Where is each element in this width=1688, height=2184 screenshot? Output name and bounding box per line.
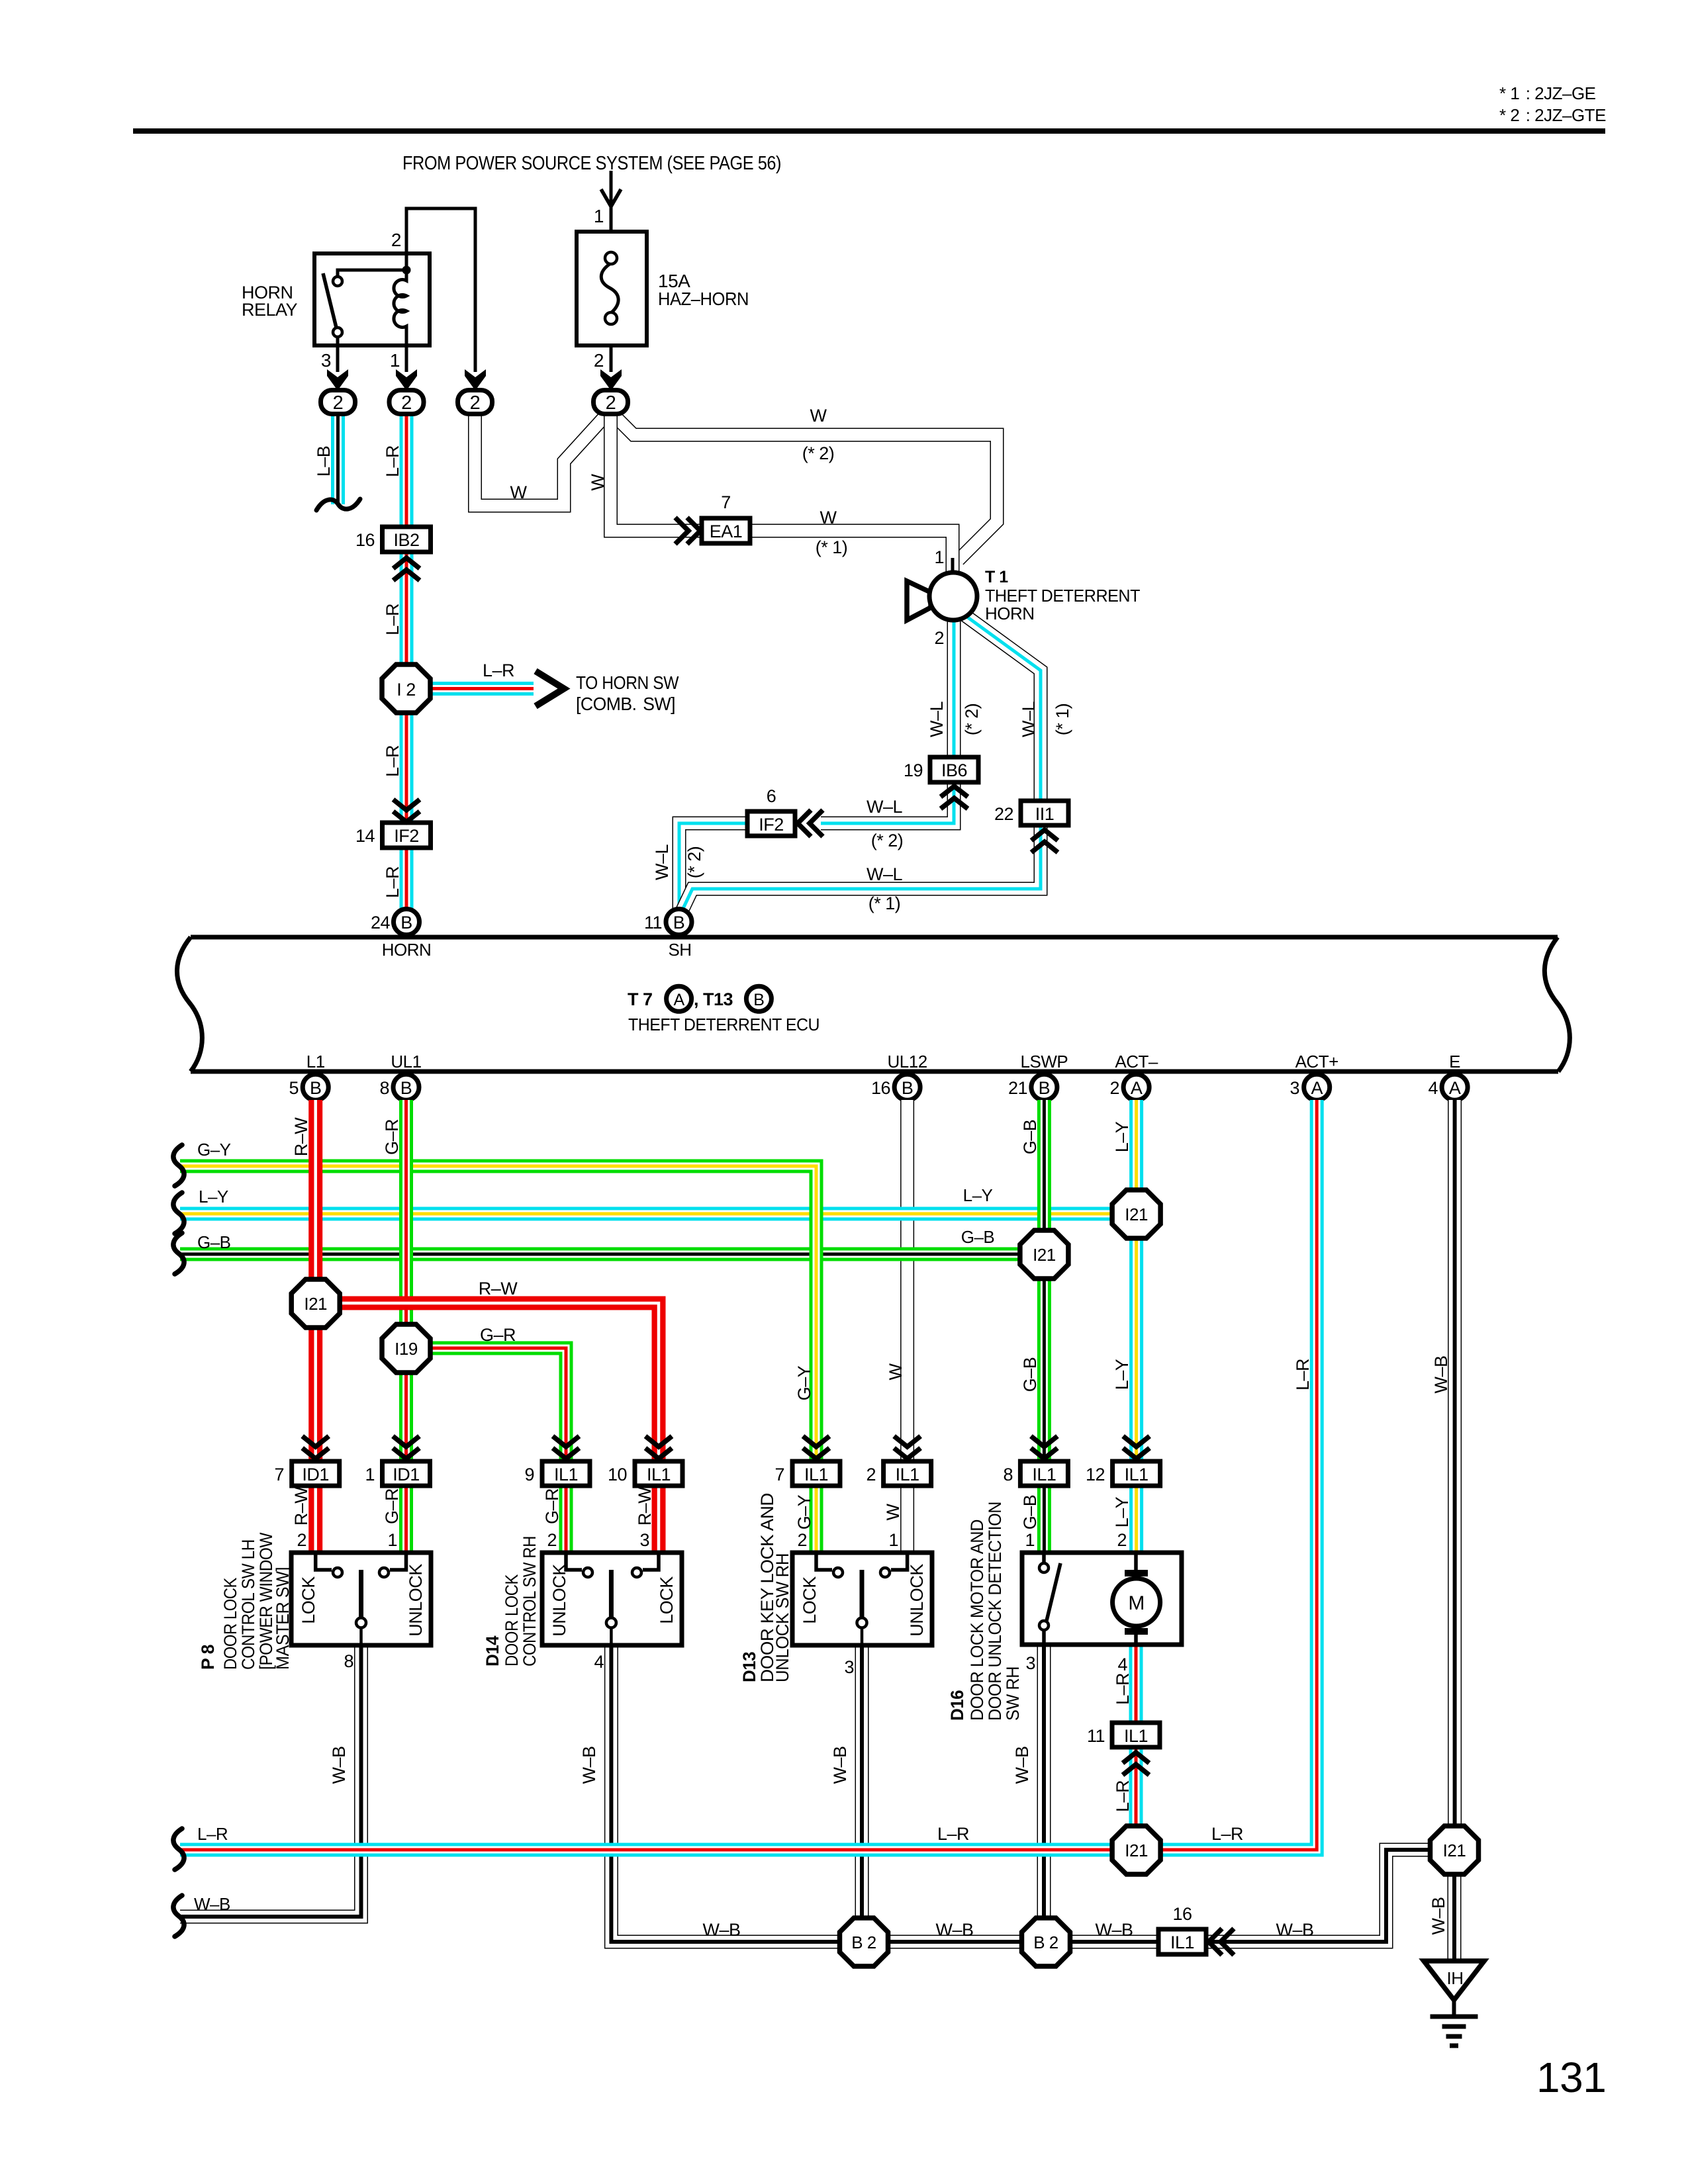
svg-text:W: W bbox=[810, 406, 827, 426]
svg-text:B 2: B 2 bbox=[1033, 1933, 1058, 1952]
svg-text:L–R: L–R bbox=[1211, 1824, 1243, 1844]
chevron right into EA1 bbox=[675, 518, 700, 544]
svg-text:MASTER SW]: MASTER SW] bbox=[273, 1567, 293, 1670]
D16 pin 4 label bbox=[1117, 1655, 1127, 1674]
svg-text:L–R: L–R bbox=[383, 866, 402, 898]
svg-text:EA1: EA1 bbox=[710, 522, 743, 541]
chevron down above IF2 bbox=[393, 799, 420, 822]
svg-text:ACT+: ACT+ bbox=[1295, 1052, 1338, 1071]
chevron down above IL1 pin 2 bbox=[894, 1436, 921, 1459]
svg-text:1: 1 bbox=[365, 1465, 375, 1484]
ECU title T7 A, T13 B bbox=[628, 986, 820, 1034]
brace G-Y bus bbox=[173, 1145, 184, 1186]
svg-text:DOOR LOCK: DOOR LOCK bbox=[502, 1574, 522, 1666]
svg-text:1: 1 bbox=[888, 1530, 898, 1550]
svg-text:2: 2 bbox=[797, 1530, 807, 1550]
svg-text:(* 1): (* 1) bbox=[1053, 704, 1072, 736]
svg-text:3: 3 bbox=[1025, 1653, 1035, 1673]
svg-text:I21: I21 bbox=[1033, 1245, 1056, 1265]
svg-text:21: 21 bbox=[1008, 1078, 1027, 1098]
svg-text:DOOR UNLOCK DETECTION: DOOR UNLOCK DETECTION bbox=[985, 1502, 1005, 1721]
junction octagon B2 (right) bbox=[1022, 1918, 1070, 1966]
svg-text:3: 3 bbox=[639, 1530, 649, 1550]
svg-text:IL1: IL1 bbox=[554, 1465, 578, 1484]
wire W-L (*2) from horn pin 2 down to IB6 bbox=[927, 620, 982, 758]
svg-text:IF2: IF2 bbox=[394, 826, 419, 846]
svg-text:W–L: W–L bbox=[867, 864, 903, 884]
chevron left into IF2 pin 6 bbox=[798, 810, 823, 837]
svg-text:T 1: T 1 bbox=[985, 568, 1008, 586]
wire L-B from connector, broken end bbox=[314, 414, 338, 504]
P8 pin 8 label bbox=[344, 1651, 353, 1671]
svg-text:L–R: L–R bbox=[937, 1824, 969, 1844]
fuse 15A HAZ-HORN bbox=[577, 232, 749, 345]
D16 pin 3 label bbox=[1025, 1653, 1035, 1673]
wire L-R branch to horn switch bbox=[406, 660, 534, 689]
svg-text:R–W: R–W bbox=[291, 1486, 311, 1526]
wire W-B from B2 to IL1 pin 16 bbox=[1068, 1920, 1160, 1942]
D14 label block bbox=[483, 1536, 539, 1666]
svg-text:LSWP: LSWP bbox=[1021, 1052, 1068, 1071]
arrow into connector 2 (feed) bbox=[465, 369, 486, 390]
ECU pin 5 B bbox=[289, 1074, 328, 1100]
wire W-B from D14 pin 4 to B2 bbox=[579, 1646, 841, 1942]
svg-text:B: B bbox=[1039, 1078, 1051, 1098]
wire W-B from P8 pin 8 to left brace bbox=[180, 1646, 361, 1917]
svg-text:FROM POWER SOURCE SYSTEM (SEE: FROM POWER SOURCE SYSTEM (SEE PAGE 56) bbox=[402, 153, 781, 174]
junction box 22 II1 bbox=[994, 801, 1068, 825]
wire W-B between B2 junctions bbox=[886, 1920, 1023, 1942]
svg-text:IL1: IL1 bbox=[647, 1465, 671, 1484]
svg-text:HORN: HORN bbox=[985, 604, 1035, 623]
ECU pin 4 A bbox=[1428, 1074, 1468, 1100]
svg-text:1: 1 bbox=[1025, 1530, 1035, 1550]
svg-text:G–B: G–B bbox=[1020, 1120, 1040, 1155]
junction box 19 IB6 bbox=[904, 757, 978, 782]
svg-text:RELAY: RELAY bbox=[242, 300, 298, 320]
chevron down above IL1 pin 10 bbox=[645, 1436, 672, 1459]
svg-text:10: 10 bbox=[608, 1465, 627, 1484]
svg-text:2: 2 bbox=[1117, 1530, 1127, 1550]
svg-text:4: 4 bbox=[1428, 1078, 1438, 1098]
svg-text:L–R: L–R bbox=[383, 445, 402, 477]
title FROM POWER SOURCE SYSTEM bbox=[402, 153, 781, 174]
relay switch contact bbox=[323, 270, 406, 337]
svg-text:HAZ–HORN: HAZ–HORN bbox=[658, 289, 749, 309]
arrow into connector 2 (relay pin1) bbox=[396, 369, 417, 390]
svg-text:W–L: W–L bbox=[867, 797, 903, 817]
svg-text:UNLOCK: UNLOCK bbox=[907, 1564, 927, 1637]
connector octagon I21 (W-B / ground) bbox=[1430, 1826, 1479, 1874]
svg-text:1: 1 bbox=[594, 206, 604, 226]
wire: relay pin 1 bbox=[390, 345, 406, 372]
svg-text:* 1 : 2JZ–GE: * 1 : 2JZ–GE bbox=[1499, 83, 1596, 103]
svg-text:3: 3 bbox=[1289, 1078, 1299, 1098]
junction box 11 IL1 bbox=[1087, 1723, 1160, 1747]
svg-text:LOCK: LOCK bbox=[657, 1576, 677, 1624]
svg-text:(* 1): (* 1) bbox=[816, 537, 848, 557]
svg-text:II1: II1 bbox=[1035, 804, 1055, 824]
svg-text:2: 2 bbox=[606, 392, 616, 414]
chevron up below IB2 bbox=[393, 558, 420, 580]
svg-text:11: 11 bbox=[644, 913, 662, 933]
svg-text:IB6: IB6 bbox=[941, 760, 967, 780]
svg-text:W: W bbox=[820, 508, 837, 527]
connector octagon I 2 bbox=[382, 664, 430, 713]
svg-text:B: B bbox=[400, 913, 412, 933]
chevron down above IL1 pin 7 bbox=[803, 1436, 829, 1459]
wire W link between connectors (U shape) bbox=[475, 414, 605, 506]
ECU pin 24 B (HORN) bbox=[371, 909, 431, 960]
switch pin number labels above boxes bbox=[297, 1530, 1127, 1550]
junction box 7 ID1 bbox=[274, 1461, 339, 1486]
chevron down above ID1 pin 7 bbox=[303, 1436, 329, 1459]
arrow into connector 2 (fuse) bbox=[600, 369, 622, 390]
ECU pin 16 B bbox=[871, 1074, 920, 1100]
chevron down above IL1 pin 9 bbox=[553, 1436, 579, 1459]
wire G-R from UL1 to I19 and P8 pin 1 bbox=[382, 1100, 406, 1554]
wire L-R from D16 pin 4 through IL1 pin 11 to I21 bbox=[1113, 1645, 1136, 1828]
bus G-B from brace to I21 bbox=[180, 1227, 1044, 1254]
junction box 7 EA1 bbox=[702, 492, 750, 543]
svg-text:2: 2 bbox=[934, 628, 944, 648]
svg-text:2: 2 bbox=[547, 1530, 557, 1550]
connector oval 2 (W) bbox=[458, 390, 492, 414]
svg-text:W–B: W–B bbox=[1012, 1746, 1032, 1784]
connector oval 2 (fuse W) bbox=[594, 390, 628, 414]
svg-text:G–R: G–R bbox=[542, 1488, 562, 1524]
svg-text:B 2: B 2 bbox=[851, 1933, 876, 1952]
svg-text:2: 2 bbox=[297, 1530, 306, 1550]
svg-text:G–Y: G–Y bbox=[794, 1365, 814, 1400]
svg-text:16: 16 bbox=[871, 1078, 890, 1098]
svg-text:M: M bbox=[1128, 1592, 1145, 1614]
svg-text:W–L: W–L bbox=[927, 702, 947, 738]
svg-text:B: B bbox=[753, 991, 764, 1009]
svg-text:R–W: R–W bbox=[479, 1279, 518, 1298]
svg-text:L–R: L–R bbox=[383, 745, 402, 777]
bus L-R bottom from brace to I21 bbox=[180, 1824, 1112, 1850]
svg-text:TO HORN SW: TO HORN SW bbox=[576, 672, 679, 693]
svg-text:D13: D13 bbox=[739, 1652, 759, 1682]
svg-text:R–W: R–W bbox=[635, 1486, 655, 1526]
bus/wire G-Y from brace to D13 pin 2 bbox=[180, 1140, 816, 1554]
svg-text:B: B bbox=[902, 1078, 914, 1098]
wire W-L (*2) from IB6 left to IF2 pin 6 bbox=[821, 782, 954, 850]
theft deterrent ECU band bbox=[177, 937, 1570, 1071]
connector oval 2 (L-B) bbox=[321, 390, 355, 414]
junction octagon B2 (left) bbox=[840, 1918, 888, 1966]
svg-text:W: W bbox=[588, 473, 608, 490]
junction box 16 IB2 bbox=[355, 527, 431, 552]
svg-text:G–R: G–R bbox=[480, 1325, 516, 1345]
svg-text:G–B: G–B bbox=[961, 1227, 995, 1247]
wire R-W branch from I21 to D14 pin 3 bbox=[316, 1279, 659, 1554]
top rule bbox=[133, 128, 1605, 134]
svg-text:G–R: G–R bbox=[382, 1119, 402, 1155]
wire L-Y from ACT- to D16 pin 2 bbox=[1112, 1100, 1137, 1554]
chevron up below IB6 bbox=[941, 786, 968, 809]
wire W-L (*2) from IF2 to ECU pin 11 bbox=[652, 823, 747, 911]
svg-text:ID1: ID1 bbox=[302, 1465, 329, 1484]
connector octagon I19 (G-R) bbox=[382, 1324, 430, 1373]
svg-text:L–Y: L–Y bbox=[1112, 1359, 1132, 1390]
svg-text:2: 2 bbox=[391, 230, 401, 250]
svg-text:THEFT DETERRENT: THEFT DETERRENT bbox=[985, 586, 1141, 606]
svg-text:P 8: P 8 bbox=[198, 1645, 218, 1670]
svg-text:G–B: G–B bbox=[1020, 1495, 1040, 1530]
svg-text:IF2: IF2 bbox=[759, 815, 784, 835]
wire: relay pin 3 bbox=[321, 337, 338, 372]
svg-text:22: 22 bbox=[994, 804, 1013, 824]
chevron up below II1 bbox=[1031, 830, 1058, 852]
svg-text:W–B: W–B bbox=[1095, 1920, 1133, 1940]
svg-text:L–R: L–R bbox=[1293, 1359, 1313, 1390]
svg-text:B: B bbox=[673, 913, 685, 933]
svg-text:L–R: L–R bbox=[1113, 1673, 1133, 1705]
svg-text:W–B: W–B bbox=[830, 1746, 850, 1784]
brace G-B bus bbox=[173, 1233, 184, 1274]
junction box 9 IL1 bbox=[524, 1461, 590, 1486]
D16 motor M bbox=[1113, 1555, 1160, 1643]
svg-text:IL1: IL1 bbox=[804, 1465, 828, 1484]
brace W-B bus bbox=[173, 1895, 184, 1936]
svg-text:L–R: L–R bbox=[197, 1824, 228, 1844]
ground symbol bbox=[1430, 2000, 1478, 2046]
ECU pin 21 B bbox=[1008, 1074, 1057, 1100]
wire W-L (*1) from II1 to ECU pin 11 bbox=[680, 825, 1041, 914]
svg-text:131: 131 bbox=[1536, 2054, 1606, 2101]
svg-text:(* 1): (* 1) bbox=[868, 893, 901, 913]
svg-text:(* 2): (* 2) bbox=[962, 704, 982, 736]
page number 131 bbox=[1536, 2054, 1606, 2101]
svg-text:4: 4 bbox=[1117, 1655, 1127, 1674]
svg-text:UNLOCK SW RH: UNLOCK SW RH bbox=[773, 1553, 792, 1682]
junction box 2 IL1 bbox=[866, 1461, 931, 1486]
svg-text:SW RH: SW RH bbox=[1003, 1666, 1023, 1721]
svg-text:L–Y: L–Y bbox=[963, 1185, 993, 1205]
T1 pin 1 lead bbox=[934, 547, 953, 574]
svg-text:ACT–: ACT– bbox=[1115, 1052, 1158, 1071]
svg-text:5: 5 bbox=[289, 1078, 299, 1098]
svg-text:W–B: W–B bbox=[702, 1920, 740, 1940]
svg-text:W: W bbox=[510, 482, 528, 502]
switch D14 door lock control SW RH bbox=[542, 1553, 682, 1647]
svg-text:W–B: W–B bbox=[329, 1746, 349, 1784]
connector octagon I21 (R-W) bbox=[291, 1279, 340, 1328]
svg-text:LOCK: LOCK bbox=[299, 1576, 318, 1624]
svg-text:W–B: W–B bbox=[1276, 1920, 1313, 1940]
P8 label block bbox=[198, 1532, 293, 1670]
svg-text:THEFT DETERRENT ECU: THEFT DETERRENT ECU bbox=[628, 1015, 820, 1034]
svg-text:19: 19 bbox=[904, 760, 923, 780]
connector octagon I21 (L-R bus) bbox=[1112, 1826, 1160, 1874]
wire R-W from L1 to I21 and P8 pin 2 bbox=[291, 1100, 316, 1554]
wire W-B from IL1 pin 16 to I21 bbox=[1207, 1850, 1432, 1942]
ground triangle IH bbox=[1424, 1961, 1484, 2000]
D13 pin 3 label bbox=[844, 1657, 854, 1677]
svg-text:W–B: W–B bbox=[194, 1894, 230, 1914]
switch P8 door lock control SW LH bbox=[291, 1553, 431, 1647]
svg-text:9: 9 bbox=[524, 1465, 534, 1484]
svg-text:G–Y: G–Y bbox=[197, 1140, 231, 1160]
svg-text:3: 3 bbox=[321, 350, 331, 371]
brace L-R bus bbox=[173, 1829, 184, 1870]
svg-text:1: 1 bbox=[934, 547, 944, 567]
ECU pin 8 B bbox=[379, 1074, 419, 1100]
svg-text:G–B: G–B bbox=[197, 1232, 231, 1252]
svg-text:W: W bbox=[883, 1503, 903, 1520]
arrow into connector 2 (relay pin3) bbox=[327, 369, 348, 390]
svg-text:W: W bbox=[886, 1363, 906, 1380]
svg-text:L–B: L–B bbox=[314, 446, 334, 477]
svg-text:A: A bbox=[1449, 1078, 1461, 1098]
svg-text:(* 2): (* 2) bbox=[684, 846, 704, 879]
svg-text:A: A bbox=[1131, 1078, 1143, 1098]
svg-text:W–B: W–B bbox=[935, 1920, 973, 1940]
svg-text:DOOR LOCK MOTOR AND: DOOR LOCK MOTOR AND bbox=[967, 1520, 987, 1721]
wire W-B from D13 pin 3 to B2 bbox=[830, 1646, 862, 1919]
svg-text:IL1: IL1 bbox=[1170, 1933, 1194, 1952]
svg-text:A: A bbox=[674, 991, 685, 1009]
junction box 7 IL1 bbox=[774, 1461, 840, 1486]
svg-text:B: B bbox=[310, 1078, 322, 1098]
svg-text:B: B bbox=[400, 1078, 412, 1098]
svg-text:D14: D14 bbox=[483, 1636, 502, 1666]
svg-text:L–R: L–R bbox=[1113, 1780, 1133, 1812]
wire W from UL12 down to D13 pin 1 bbox=[883, 1100, 908, 1554]
chevron down above ID1 pin 1 bbox=[393, 1436, 420, 1459]
svg-text:HORN: HORN bbox=[382, 940, 432, 960]
wire: power feed into fuse pin 1 bbox=[594, 171, 621, 232]
svg-text:[COMB. SW]: [COMB. SW] bbox=[576, 694, 675, 714]
connector octagon I21 (L-Y / ACT-) bbox=[1112, 1190, 1160, 1238]
svg-text:L–Y: L–Y bbox=[1112, 1121, 1132, 1152]
svg-text:(* 2): (* 2) bbox=[802, 443, 835, 463]
svg-text:W–B: W–B bbox=[579, 1746, 599, 1784]
svg-text:1: 1 bbox=[390, 350, 400, 371]
horn relay box bbox=[242, 253, 430, 345]
svg-text:2: 2 bbox=[401, 392, 412, 414]
switch D13 door key lock and unlock SW RH bbox=[792, 1553, 932, 1647]
theft deterrent horn T1 bbox=[907, 568, 1141, 623]
wire: relay pin 2 feed bbox=[391, 208, 475, 372]
wire L-R from ACT+ to I21 (bottom) bbox=[1136, 1100, 1317, 1850]
bus L-Y from brace to I21 bbox=[180, 1185, 1136, 1214]
svg-text:8: 8 bbox=[379, 1078, 389, 1098]
junction box 12 IL1 bbox=[1086, 1461, 1160, 1486]
connector octagon I21 (G-B / LSWP) bbox=[1020, 1230, 1068, 1279]
svg-text:2: 2 bbox=[866, 1465, 876, 1484]
svg-text:T 7: T 7 bbox=[628, 989, 653, 1009]
svg-text:8: 8 bbox=[1003, 1465, 1013, 1484]
svg-text:DOOR LOCK: DOOR LOCK bbox=[220, 1578, 240, 1670]
connector oval 2 (L-R) bbox=[389, 390, 424, 414]
ECU pin 11 B (SH) bbox=[644, 909, 692, 960]
break squiggle on L-B wire bbox=[316, 499, 360, 510]
svg-text:L1: L1 bbox=[306, 1052, 325, 1071]
svg-text:IB2: IB2 bbox=[393, 530, 419, 550]
ECU pin 3 A bbox=[1289, 1074, 1329, 1100]
wire W (*2) upper run to horn bbox=[614, 406, 997, 560]
svg-text:E: E bbox=[1449, 1052, 1460, 1071]
svg-text:16: 16 bbox=[355, 530, 375, 550]
svg-text:2: 2 bbox=[333, 392, 344, 414]
arrowhead to horn switch bbox=[536, 671, 679, 714]
junction box 8 IL1 bbox=[1003, 1461, 1068, 1486]
wire G-B from LSWP to D16 pin 1 bbox=[1020, 1100, 1044, 1554]
wire W (*1) from fuse connector via EA1 to horn pin 1 bbox=[588, 414, 953, 572]
svg-text:6: 6 bbox=[767, 786, 776, 806]
wire W-L (*1) diagonal from horn pin 2 to II1 bbox=[965, 615, 1072, 802]
svg-text:12: 12 bbox=[1086, 1465, 1105, 1484]
svg-text:IH: IH bbox=[1447, 1968, 1464, 1988]
svg-text:7: 7 bbox=[721, 492, 731, 512]
header note *2 2JZ-GTE bbox=[1499, 105, 1606, 125]
D16 label block bbox=[947, 1502, 1023, 1721]
svg-text:W–L: W–L bbox=[1019, 702, 1039, 738]
wire L-R main vertical (connector to ECU pin 24) bbox=[383, 414, 406, 911]
svg-text:I 2: I 2 bbox=[397, 680, 416, 700]
svg-text:2: 2 bbox=[470, 392, 481, 414]
svg-text:D16: D16 bbox=[947, 1690, 967, 1721]
svg-text:UNLOCK: UNLOCK bbox=[406, 1564, 426, 1637]
svg-text:2: 2 bbox=[594, 350, 604, 371]
svg-text:L–R: L–R bbox=[383, 604, 402, 635]
relay coil bbox=[394, 266, 411, 346]
wire G-R branch from I19 to D14 pin 2 bbox=[406, 1325, 567, 1554]
svg-text:* 2 : 2JZ–GTE: * 2 : 2JZ–GTE bbox=[1499, 105, 1606, 125]
ECU bottom pin labels bbox=[306, 1052, 1460, 1071]
svg-text:L–Y: L–Y bbox=[199, 1187, 228, 1206]
svg-text:IL1: IL1 bbox=[1032, 1465, 1056, 1484]
svg-text:G–B: G–B bbox=[1020, 1357, 1040, 1392]
svg-text:16: 16 bbox=[1172, 1904, 1192, 1924]
svg-text:, T13: , T13 bbox=[694, 989, 733, 1009]
svg-text:UL12: UL12 bbox=[888, 1052, 927, 1071]
svg-text:7: 7 bbox=[274, 1465, 284, 1484]
svg-text:2: 2 bbox=[1109, 1078, 1119, 1098]
chevron up below IL1 pin 11 bbox=[1123, 1752, 1149, 1775]
svg-text:IL1: IL1 bbox=[1125, 1465, 1149, 1484]
ECU pin 2 A bbox=[1109, 1074, 1149, 1100]
svg-text:L–R: L–R bbox=[483, 660, 514, 680]
svg-text:I21: I21 bbox=[1125, 1841, 1148, 1860]
svg-text:IL1: IL1 bbox=[896, 1465, 919, 1484]
wire W-B from D16 pin 3 to B2 bbox=[1012, 1645, 1044, 1919]
svg-text:G–R: G–R bbox=[382, 1488, 402, 1524]
junction box 16 IL1 bbox=[1158, 1904, 1206, 1954]
svg-text:SH: SH bbox=[668, 940, 691, 960]
svg-text:ID1: ID1 bbox=[393, 1465, 420, 1484]
svg-text:24: 24 bbox=[371, 913, 391, 933]
chevron down above IL1 pin 8 bbox=[1031, 1436, 1057, 1459]
junction box 14 IF2 bbox=[355, 823, 431, 848]
wire W-B from I21 to ground IH bbox=[1429, 1874, 1454, 1962]
svg-text:3: 3 bbox=[844, 1657, 854, 1677]
svg-text:7: 7 bbox=[774, 1465, 784, 1484]
svg-text:8: 8 bbox=[344, 1651, 353, 1671]
svg-text:I21: I21 bbox=[1125, 1205, 1148, 1224]
svg-text:W–L: W–L bbox=[652, 844, 672, 881]
svg-text:CONTROL SW RH: CONTROL SW RH bbox=[520, 1536, 539, 1666]
svg-text:LOCK: LOCK bbox=[800, 1576, 820, 1624]
switch/motor D16 door lock motor bbox=[1022, 1553, 1182, 1645]
svg-text:R–W: R–W bbox=[291, 1117, 311, 1157]
brace L-Y bus bbox=[173, 1193, 184, 1234]
chevron down above IL1 pin 12 bbox=[1123, 1436, 1150, 1459]
junction box 6 IF2 bbox=[747, 786, 795, 836]
